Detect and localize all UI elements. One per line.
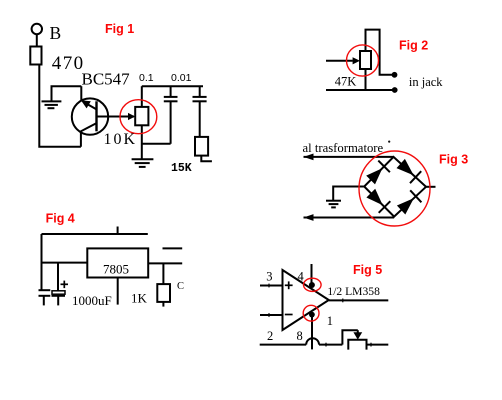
op-amp plus input mark [285, 284, 293, 286]
tick on input 3 [268, 284, 270, 288]
terminal B circle [32, 24, 42, 34]
svg-text:BC547: BC547 [82, 70, 131, 89]
wire top to trasformatore [304, 156, 394, 158]
wire terminal to resistor [36, 34, 38, 46]
wire floating segment [163, 247, 183, 249]
svg-text:8: 8 [297, 329, 303, 343]
trimmer arrow head [353, 332, 362, 339]
wire pin 4 [311, 264, 313, 289]
capacitor 0.01 bottom stem [199, 101, 201, 137]
capacitor 0.1 top stem [170, 86, 172, 97]
tick on input 2 [268, 313, 270, 317]
resistor 15K bottom wire [201, 156, 212, 162]
junction dot pin 4 [309, 282, 315, 288]
svg-text:Fig 2: Fig 2 [399, 39, 428, 53]
diode D3 (bottom-left) [366, 189, 382, 206]
red circle bridge [359, 151, 430, 226]
red highlight circles [120, 45, 430, 321]
diode D4 (bottom-right) [397, 198, 414, 214]
wire output pin regulator [117, 278, 119, 305]
arrowhead into potentiometer 47K [353, 57, 360, 64]
svg-text:0.1: 0.1 [139, 72, 154, 84]
capacitor C2 1000uF bottom plate [52, 295, 66, 297]
resistor 1K [157, 284, 170, 302]
red circle potentiometer 47K [347, 45, 379, 76]
wire output [329, 299, 389, 301]
transistor Q1 emitter arrow [81, 100, 91, 108]
red circle pin 1 [303, 305, 319, 321]
svg-text:470: 470 [52, 53, 85, 74]
svg-text:4: 4 [298, 270, 305, 284]
svg-text:10K: 10K [104, 131, 138, 148]
stray speck [388, 141, 390, 143]
junction dot pin 1 [309, 312, 315, 318]
ground G1 [42, 100, 62, 102]
potentiometer 47K body [360, 51, 371, 69]
svg-text:7805: 7805 [103, 262, 129, 277]
wire bridge left to ground [333, 187, 364, 201]
wire input to regulator [42, 262, 88, 264]
wire arrow into potentiometer 47K [326, 60, 353, 62]
wire hop over [306, 338, 319, 344]
transistor Q1 base bar [95, 101, 97, 131]
potentiometer 47K bottom stem [365, 69, 367, 90]
capacitor C1 plates [39, 289, 51, 291]
op-amp U1 triangle [283, 270, 329, 330]
wire bottom to trasformatore [304, 217, 395, 219]
svg-text:in jack: in jack [409, 75, 443, 89]
wire bottom rail left [260, 344, 307, 346]
arrowhead into potentiometer [128, 113, 135, 120]
op-amp minus input mark [285, 314, 293, 316]
svg-text:15K: 15K [171, 162, 192, 175]
capacitor C2 1000uF plus sign [61, 283, 69, 285]
terminal dot upper [392, 72, 398, 78]
red circle potentiometer 10K [120, 100, 157, 134]
ground G3 [326, 200, 341, 202]
ground G2 under potentiometer [132, 158, 154, 160]
svg-text:1: 1 [327, 314, 333, 328]
svg-text:Fig 3: Fig 3 [439, 153, 468, 167]
svg-text:Fig 5: Fig 5 [353, 263, 382, 277]
wire input pin 2 [260, 314, 283, 316]
potentiometer 47K top loop wire [366, 30, 393, 75]
bridge rectifier diamond [364, 157, 426, 217]
tick on bottom rail [325, 343, 327, 347]
wire branch to potentiometer [142, 143, 171, 145]
tick on right rail [370, 343, 372, 347]
capacitor 0.1 bottom stem [170, 101, 172, 144]
wire input pin 3 [260, 285, 283, 287]
wire top rail fig1 [142, 85, 203, 87]
capacitor 0.01 plates [193, 96, 207, 98]
trimmer bracket [348, 340, 366, 350]
regulator U2 7805 box [87, 248, 148, 277]
wire ground to emitter [80, 86, 82, 100]
capacitor C2 bottom stem [57, 296, 59, 306]
tick marks [269, 284, 371, 347]
svg-text:3: 3 [266, 270, 272, 284]
diode D2 (top-right) [397, 159, 414, 176]
tick stub [117, 227, 119, 235]
arrowhead top left [304, 154, 314, 161]
wire bottom rail mid [319, 344, 342, 346]
resistor 15K [195, 137, 208, 156]
wire base to potentiometer [97, 116, 135, 118]
wire bottom rail fig2 [326, 89, 393, 91]
trimmer riser wire [342, 330, 357, 344]
resistor 1K stem [162, 263, 164, 284]
svg-text:Fig 4: Fig 4 [46, 211, 75, 225]
transistor Q1 BC547 circle [72, 98, 108, 134]
svg-text:0.01: 0.01 [171, 72, 192, 84]
diode D1 (top-left) [366, 168, 382, 184]
wire bottom rail right [367, 344, 389, 346]
capacitor C2 1000uF top stem [57, 263, 59, 291]
svg-text:1000uF: 1000uF [72, 293, 112, 308]
terminal dot lower [392, 87, 398, 93]
red circle pin 4 [304, 278, 322, 291]
capacitor 0.1 plates [164, 96, 178, 98]
svg-text:1/2 LM358: 1/2 LM358 [327, 285, 380, 298]
potentiometer 10K bottom stem [141, 125, 143, 159]
tick on output [342, 299, 344, 303]
svg-text:2: 2 [267, 329, 273, 343]
ground G1 wire [52, 86, 82, 101]
transistor Q1 collector [81, 123, 97, 147]
potentiometer 10K body [135, 107, 148, 125]
wire pin 1 down [311, 317, 313, 349]
wire left rail [39, 65, 81, 147]
capacitor C2 1000uF top plate (rect) [52, 291, 65, 294]
potentiometer 10K top stem [141, 86, 143, 107]
svg-text:al trasformatore: al trasformatore [303, 141, 384, 155]
svg-text:B: B [50, 23, 62, 43]
capacitor C1 bottom stem [43, 296, 45, 306]
svg-text:1K: 1K [131, 291, 148, 306]
svg-text:Fig 1: Fig 1 [105, 22, 134, 36]
wire top rail fig4 [42, 233, 148, 235]
wire output rail [148, 262, 182, 264]
arrowhead bottom left [304, 214, 314, 221]
transistor Q1 emitter [84, 102, 97, 109]
resistor 1K bottom stem [162, 302, 164, 307]
svg-text:47K: 47K [335, 74, 357, 88]
resistor 470 [30, 47, 41, 65]
svg-text:C: C [177, 281, 184, 292]
wire left rail fig4 [41, 234, 43, 290]
trimmer arrow stem [357, 330, 359, 333]
bridge right stub [426, 186, 436, 188]
capacitor 0.01 stem [199, 86, 201, 97]
